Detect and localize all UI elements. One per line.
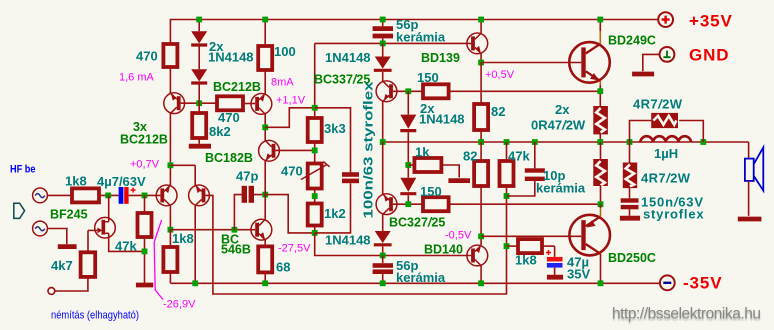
node BC546B base <box>232 227 238 233</box>
node feedback / 1k8 <box>504 243 510 249</box>
transistor Q1 BC212B current source <box>164 93 185 114</box>
transistor Q5 BC546B <box>251 219 272 240</box>
svg-text:82: 82 <box>463 149 477 164</box>
svg-text:-0,5V: -0,5V <box>445 230 472 242</box>
wire sense line to BD249C emitter <box>449 90 601 92</box>
resistor 4R7/2W (horizontal) <box>630 113 704 142</box>
wire BC182B base <box>275 149 314 151</box>
wire BD249C collector <box>599 20 601 33</box>
wire chain bottom to BD140 base <box>315 233 471 256</box>
ground below 47k <box>136 283 153 288</box>
node top rail at diode chain <box>196 17 202 23</box>
node rail at inductor right <box>700 139 706 145</box>
svg-text:BC182B: BC182B <box>205 151 253 165</box>
wire Q1 base to node <box>181 102 217 104</box>
capacitor 56p (lower) <box>373 256 393 284</box>
node Q2/BC182B collectors <box>262 124 268 130</box>
svg-text:némítás (elhagyható): némítás (elhagyható) <box>51 309 139 321</box>
capacitor 100n/63 styroflex <box>315 108 359 233</box>
resistor 68 <box>258 240 272 283</box>
wire to BD249C base <box>481 62 581 64</box>
diode 1N4148 (lower, at BC327) <box>374 231 392 256</box>
transistor Q3 input left BC212B <box>156 185 177 206</box>
transistor Q11 BD249C <box>569 42 610 83</box>
resistor 150 (lower sense) <box>423 197 449 211</box>
node rail at BC337 emitter <box>380 139 386 145</box>
svg-text:35V: 35V <box>567 267 590 282</box>
node chain at BC182B base <box>312 148 318 154</box>
source terminal upper <box>33 188 48 203</box>
svg-text:BC212B: BC212B <box>120 133 168 147</box>
resistor 470 (left current source) <box>163 44 177 67</box>
wire Q1 collector down to tail junction <box>169 113 171 185</box>
resistor 4k7 <box>81 252 96 277</box>
wire BC337 base to sense node <box>393 90 423 92</box>
wire bias chain vertical <box>314 43 316 233</box>
svg-text:1k: 1k <box>415 145 430 160</box>
transistor J1 BF245 JFET <box>88 217 115 238</box>
ground below GND terminal <box>632 72 654 77</box>
wire BC182B emitter chain <box>264 161 266 219</box>
ground below 47µ <box>547 275 563 280</box>
svg-text:1k8: 1k8 <box>515 253 537 268</box>
svg-text:3k3: 3k3 <box>324 121 346 136</box>
transistor Q4 input right BC212B <box>189 185 210 206</box>
wire bias line to BD139 base <box>315 42 471 44</box>
wire Q4 collector to negative rail <box>194 206 196 284</box>
ground below 150n <box>620 216 640 221</box>
node negative rail at BD250C <box>598 280 604 286</box>
wire JFET gate down <box>87 230 89 252</box>
wire 8k2 to ground <box>198 138 200 144</box>
terminal +35V <box>658 12 673 27</box>
wire lower sense line <box>393 203 601 205</box>
inductor 1µH <box>640 136 691 142</box>
node emitter tie <box>168 162 174 168</box>
wire Q4 base to feedback <box>205 195 506 294</box>
svg-text:470: 470 <box>281 164 303 179</box>
svg-text:1,6 mA: 1,6 mA <box>119 72 155 84</box>
diode D3 1N4148 (limiter chain) <box>400 91 416 130</box>
svg-text:BD140: BD140 <box>424 243 463 257</box>
node BD250C emitter <box>598 201 604 207</box>
svg-text:47k: 47k <box>508 149 530 164</box>
wire source to 1k8 <box>48 194 72 196</box>
svg-text:+0,5V: +0,5V <box>485 69 515 81</box>
svg-text:+1,1V: +1,1V <box>276 95 306 107</box>
wire collector node to chain top <box>265 108 315 128</box>
svg-text:1µH: 1µH <box>654 146 678 161</box>
svg-text:1k8: 1k8 <box>172 231 194 246</box>
wire BC327 collector down <box>382 214 384 231</box>
resistor 0R47/2W (upper) <box>593 106 608 134</box>
svg-text:470: 470 <box>136 49 158 64</box>
node negative rail at 56p <box>380 280 386 286</box>
svg-text:BC337/25: BC337/25 <box>314 73 370 87</box>
node rail at 68 <box>262 280 268 286</box>
svg-text:4R7/2W: 4R7/2W <box>633 97 683 112</box>
svg-text:-26,9V: -26,9V <box>163 299 196 311</box>
wire 4k7 to mute terminal <box>55 277 88 291</box>
transistor Q10 BD140 <box>467 245 488 266</box>
svg-text:+35V: +35V <box>689 12 733 31</box>
node rail at 10p <box>532 139 538 145</box>
svg-text:150: 150 <box>417 70 439 85</box>
node Q3 collector / 1k8 tail <box>168 227 174 233</box>
node rail at 4R7 <box>627 139 633 145</box>
wire BD249C emitter to node <box>599 85 601 107</box>
wire output rail <box>383 141 749 143</box>
svg-text:100: 100 <box>274 44 296 59</box>
node bias line at 56p <box>380 41 386 47</box>
wire to BD250C base <box>481 235 581 237</box>
ground below lower source <box>58 244 77 249</box>
resistor 8k2 <box>192 113 206 138</box>
node chain below trimmer <box>312 193 318 199</box>
wire Q2 collector down to VAS node <box>264 114 266 141</box>
svg-text:-35V: -35V <box>683 274 723 293</box>
resistor 1k <box>408 158 459 178</box>
transistor Q2 BC212B <box>251 94 272 115</box>
node lower bias at 56p <box>380 253 386 259</box>
svg-text:BC327/25: BC327/25 <box>389 216 445 230</box>
resistor 47k (feedback) <box>500 142 514 246</box>
node rail at 82 <box>478 139 484 145</box>
ground below speaker <box>738 217 762 222</box>
node top rail at BD249C <box>597 17 603 23</box>
svg-text:4R7/2W: 4R7/2W <box>641 171 691 186</box>
svg-text:1N4148: 1N4148 <box>325 233 371 248</box>
svg-text:-27,5V: -27,5V <box>278 243 311 255</box>
terminal mute (open circle) <box>48 288 55 295</box>
node BD249C emitter <box>597 88 603 94</box>
wire 1k8 to cap <box>99 194 119 196</box>
wire BD250C emitter (orange stub) <box>600 207 602 216</box>
capacitor 47µ/35V electrolytic <box>546 246 563 275</box>
wire JFET drain up <box>108 195 110 221</box>
source terminal lower <box>33 221 48 236</box>
svg-text:1k2: 1k2 <box>324 206 346 221</box>
resistor 3k3 <box>308 118 322 142</box>
resistor 1k8 (tail) <box>163 230 177 284</box>
svg-text:8mA: 8mA <box>271 77 294 89</box>
resistor 470 (between Q1 and Q2) <box>217 96 243 110</box>
wire lower source to ground <box>48 229 67 245</box>
svg-text:BD250C: BD250C <box>608 251 656 265</box>
node 47k / JFET source <box>142 249 148 255</box>
node after cap <box>142 193 148 199</box>
resistor 150 (upper sense) <box>423 84 449 98</box>
svg-text:1N4148: 1N4148 <box>208 50 254 65</box>
node sense lower <box>405 201 411 207</box>
resistor 1k8 (input) <box>72 188 99 202</box>
wire BD250C emitter to node <box>600 204 602 208</box>
resistor 4R7/2W (vertical) <box>623 142 637 198</box>
annotation leader line <box>154 220 163 300</box>
trimmer 470 <box>301 162 330 189</box>
svg-text:BF245: BF245 <box>50 208 88 222</box>
node sense upper <box>405 88 411 94</box>
svg-text:+0,7V: +0,7V <box>130 159 160 171</box>
wire top +35V rail <box>170 20 658 45</box>
wire diode chain to 8k2 <box>198 85 200 114</box>
resistor 0R47/2W (lower) <box>593 142 608 204</box>
svg-text:BD139: BD139 <box>421 51 460 65</box>
node top rail at BD139 <box>478 17 484 23</box>
wire BD250C collector <box>600 254 602 283</box>
svg-text:BC212B: BC212B <box>213 80 261 94</box>
capacitor 56p (upper) <box>373 20 393 44</box>
capacitor 10p <box>507 142 545 196</box>
input arrow symbol <box>14 203 25 218</box>
wire BD249C emitter (orange stub) <box>599 81 601 85</box>
diode D4 1N4148 (limiter chain) <box>400 178 416 205</box>
resistor 47k (input bias) <box>138 195 152 283</box>
wire BD140 collector <box>480 266 482 284</box>
svg-text:1N4148: 1N4148 <box>325 50 371 65</box>
svg-text:470: 470 <box>218 110 240 125</box>
resistor 82 (upper) <box>474 63 488 143</box>
resistor 100 <box>258 20 272 94</box>
speaker <box>745 142 763 216</box>
resistor 82 (lower) <box>474 142 488 245</box>
wire 47p node to 1k2 bottom dogleg <box>265 195 315 233</box>
transistor Q6 BC182B <box>259 140 280 161</box>
svg-text:8k2: 8k2 <box>209 124 231 139</box>
wire between limiter diodes <box>407 132 409 178</box>
wire JFET source to 47k node <box>109 233 145 251</box>
svg-text:styroflex: styroflex <box>643 207 704 222</box>
node before cap <box>105 193 111 199</box>
svg-text:100n/63 styroflex: 100n/63 styroflex <box>361 81 376 219</box>
resistor 1k2 <box>308 204 322 226</box>
node negative rail at BD140 <box>478 280 484 286</box>
diode D2 1N4148 (bias chain) <box>191 47 207 84</box>
svg-text:4k7: 4k7 <box>51 258 73 273</box>
svg-text:GND: GND <box>689 46 729 65</box>
wire tail node to BC546B base <box>170 229 255 231</box>
svg-text:47p: 47p <box>236 169 258 184</box>
ground below 1k <box>448 178 470 183</box>
wire 470 to Q2 base <box>243 103 255 105</box>
capacitor 47p <box>234 186 265 230</box>
wire BD139 emitter <box>480 54 482 63</box>
svg-text:2x: 2x <box>555 102 570 117</box>
diode D1 1N4148 (bias chain) <box>191 20 207 46</box>
capacitor 150n/63V <box>621 198 639 216</box>
wire emitter tie <box>170 165 195 185</box>
terminal -35V <box>660 275 675 290</box>
svg-text:BD249C: BD249C <box>608 34 656 48</box>
svg-text:47k: 47k <box>115 239 137 254</box>
svg-text:546B: 546B <box>221 243 251 257</box>
svg-text:150: 150 <box>420 184 442 199</box>
svg-text:4µ7/63V: 4µ7/63V <box>97 174 146 189</box>
transistor Q9 BD139 <box>467 33 488 54</box>
wire Q3 collector down <box>169 206 171 230</box>
node Q1 base / diode bias <box>196 100 202 106</box>
transistor Q12 BD250C <box>569 215 610 256</box>
svg-text:kerámia: kerámia <box>536 181 586 196</box>
svg-text:kerámia: kerámia <box>396 30 446 45</box>
node chain top tap <box>312 105 318 111</box>
node rail at 0R47 <box>597 139 603 145</box>
svg-text:82: 82 <box>491 104 505 119</box>
terminal GND <box>643 47 675 71</box>
capacitor 4µ7/63V electrolytic <box>119 187 136 204</box>
svg-text:http://bsselektronika.hu: http://bsselektronika.hu <box>612 306 761 323</box>
node BD139 emitter / driver base <box>478 60 484 66</box>
diode 1N4148 (upper, at BC337) <box>374 43 392 81</box>
wire negative rail <box>170 282 659 284</box>
node 47k bottom / 10p <box>504 193 510 199</box>
wire 0R47 to output rail <box>599 134 601 142</box>
node 47p right <box>262 192 268 198</box>
node limiter mid / 1k <box>405 162 411 168</box>
wire 470 to Q1 emitter <box>169 67 171 93</box>
node rail at 47k <box>504 139 510 145</box>
ground below 8k2 <box>189 144 211 149</box>
svg-text:HF be: HF be <box>10 164 36 176</box>
wire BC337 emitter to output rail <box>382 102 384 143</box>
svg-text:1N4148: 1N4148 <box>419 112 465 127</box>
svg-text:1k8: 1k8 <box>65 174 87 189</box>
svg-text:kerámia: kerámia <box>396 270 446 285</box>
svg-text:0R47/2W: 0R47/2W <box>531 118 586 133</box>
wire BC327 emitter to rail <box>382 142 384 194</box>
node top rail at 56p <box>380 17 386 23</box>
svg-text:68: 68 <box>276 260 290 275</box>
wire BD139 collector <box>480 20 482 34</box>
wire cap to Q3 base <box>129 194 161 196</box>
transistor Q8 BC327/25 <box>376 194 397 215</box>
node top rail at 100 <box>262 17 268 23</box>
node rail at Q4 collector <box>192 280 198 286</box>
node chain bottom <box>312 230 318 236</box>
node BD140 emitter / BD250C base <box>478 233 484 239</box>
transistor Q7 BC337/25 <box>376 81 397 102</box>
resistor 1k8 (feedback) <box>507 239 555 253</box>
